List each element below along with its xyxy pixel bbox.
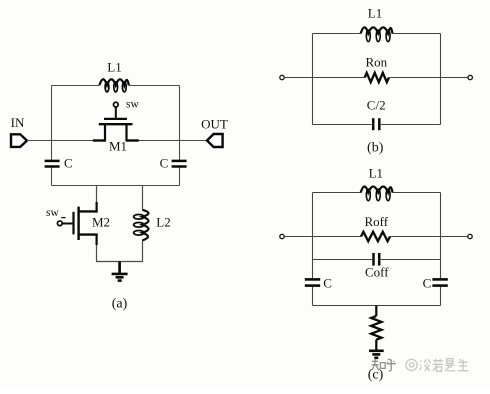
wire: box (a) bottom (52, 185, 180, 187)
svg-text:L1: L1 (368, 5, 382, 20)
watermark: 知乎 @淡若是生 (372, 359, 396, 371)
wire: box (b) top-left segment (313, 33, 362, 35)
svg-text:L1: L1 (369, 165, 383, 180)
wire: left terminal to box (c) (285, 236, 313, 238)
svg-text:(b): (b) (367, 141, 384, 156)
wire: Roff to box (c) right (390, 236, 441, 238)
wire: Ron to box (b) right (389, 77, 441, 79)
capacitor C/2 (373, 118, 379, 130)
ground (a) (112, 262, 128, 281)
transistor M1 (93, 102, 139, 141)
capacitor C right (c) (432, 279, 447, 285)
wire: box (a) top-left segment (52, 85, 100, 87)
M1 gate bar (104, 118, 127, 120)
glyph 淡 (420, 359, 431, 371)
wire: middle rail right of Coff (381, 259, 441, 261)
wire: box (c) bottom (313, 305, 441, 307)
wire: box (c) top-right segment (392, 192, 440, 194)
M2 gate bar (72, 212, 74, 235)
wire: box (c) to right terminal (441, 236, 468, 238)
resistor Ron (365, 73, 389, 82)
svg-text:IN: IN (11, 115, 25, 130)
wire: box (a) right side upper (179, 86, 181, 160)
M1 gate stem (115, 107, 117, 120)
svg-text:Roff: Roff (364, 214, 388, 229)
capacitor Coff (374, 253, 380, 266)
glyph 知 (372, 359, 379, 371)
M2 gate lead (62, 223, 73, 225)
svg-text:Coff: Coff (365, 265, 389, 280)
wire: box (b) to right terminal (441, 77, 468, 79)
svg-text:L2: L2 (156, 215, 170, 230)
terminal left (b) (280, 75, 284, 79)
wire: box (c) right side upper (440, 193, 442, 279)
svg-text:C: C (64, 155, 73, 170)
port OUT (207, 134, 223, 147)
capacitor C left (a) (45, 161, 60, 167)
svg-text:M1: M1 (109, 139, 127, 154)
wire: box (a) top-right segment (129, 85, 180, 87)
svg-text:sw: sw (126, 99, 139, 111)
wire: M1 drain to OUT (138, 140, 207, 142)
port IN (11, 134, 27, 147)
wire: box (c) left to Roff (313, 236, 362, 238)
svg-text:sw: sw (46, 207, 59, 219)
terminal right (b) (468, 75, 472, 79)
svg-text:C/2: C/2 (367, 98, 386, 113)
M1 source contact (104, 123, 106, 141)
glyph 是 (445, 359, 455, 371)
wire: left terminal to box (b) (285, 77, 313, 79)
M2 source lead (79, 233, 98, 235)
wire: box (a) right side lower (179, 168, 181, 186)
terminal left (c) (280, 234, 284, 238)
wire: M2 drain up to box bottom (96, 186, 98, 204)
transistor M2 (57, 207, 97, 240)
wire: IN to M1 source (27, 140, 94, 142)
wire: box (c) left side lower (312, 287, 314, 306)
svg-text:Ron: Ron (365, 54, 387, 69)
wire: box (b) left side (312, 34, 314, 125)
capacitor C left (c) (305, 279, 320, 285)
M1 drain contact (125, 123, 127, 141)
M1 drain lead (127, 139, 139, 141)
wire: L2 top to box bottom (142, 186, 144, 210)
wire: M2 source thick stub (95, 234, 97, 245)
svg-text:(c): (c) (368, 368, 384, 383)
M1 sw terminal circle (113, 102, 118, 107)
wire: M2 drain thick stub (95, 202, 97, 213)
terminal right (c) (468, 234, 472, 238)
wire: box (a) left side upper (51, 86, 53, 160)
wire: box (c) left side upper (312, 193, 314, 279)
glyph @ (406, 359, 417, 370)
resistor to ground (c) (371, 306, 381, 350)
wire: box (c) right side lower (440, 287, 442, 306)
svg-text:OUT: OUT (201, 116, 228, 131)
svg-text:C: C (160, 155, 169, 170)
wire: box (b) bottom-left segment (313, 124, 372, 126)
label sw overbar (M2) (61, 217, 65, 219)
svg-text:C: C (323, 275, 332, 290)
wire: box (b) top-right segment (392, 33, 440, 35)
inductor L1 (c) (361, 187, 393, 201)
M1 channel bar (99, 123, 133, 125)
svg-text:(a): (a) (112, 297, 128, 312)
svg-text:C: C (423, 275, 432, 290)
inductor L1 (b) (361, 27, 393, 41)
glyph 乎 (387, 359, 396, 371)
wire: box (b) bottom-right segment (381, 124, 441, 126)
wire: box (b) left to Ron (313, 77, 365, 79)
svg-text:L1: L1 (107, 60, 121, 75)
inductor L2 (134, 210, 149, 241)
wire: box (c) top-left segment (313, 192, 362, 194)
M2 drain lead (79, 210, 98, 212)
wire: M2 source down to junction (96, 244, 98, 262)
M2 channel bar (77, 207, 79, 240)
glyph 生 (458, 359, 469, 370)
ground (c) (369, 351, 384, 358)
wire: junction between M2 and L2 (96, 261, 143, 263)
resistor Roff (361, 232, 390, 241)
M2 sw terminal circle (57, 221, 62, 226)
glyph 若 (433, 359, 443, 372)
capacitor C right (a) (172, 161, 187, 167)
wire: middle rail left of Coff (313, 259, 373, 261)
inductor L1 (a) (99, 79, 128, 92)
wire: box (b) right side (440, 34, 442, 125)
wire: L2 bottom to junction (142, 240, 144, 261)
M1 source lead (93, 139, 105, 141)
wire: box (a) left side lower (51, 168, 53, 186)
svg-text:M2: M2 (92, 215, 110, 230)
